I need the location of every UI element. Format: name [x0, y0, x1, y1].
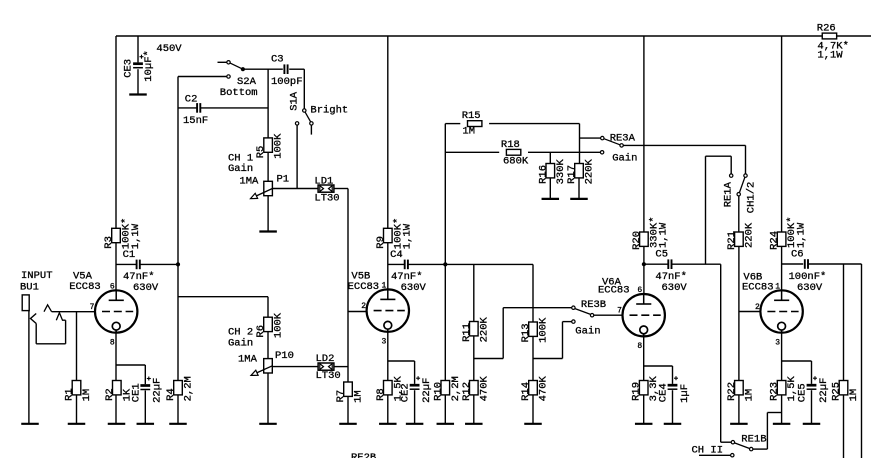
svg-text:LT30: LT30: [316, 370, 341, 382]
svg-text:ECC83: ECC83: [348, 281, 380, 293]
svg-text:C4: C4: [390, 249, 403, 261]
svg-text:100pF: 100pF: [271, 76, 303, 88]
svg-text:330K: 330K: [555, 158, 567, 184]
svg-text:22µF: 22µF: [152, 378, 164, 403]
svg-text:CE5: CE5: [797, 383, 809, 402]
svg-text:1M: 1M: [81, 389, 93, 402]
svg-text:R5: R5: [255, 146, 267, 159]
svg-text:CE3: CE3: [123, 59, 135, 78]
svg-text:630V: 630V: [133, 282, 159, 294]
svg-text:1M: 1M: [743, 389, 755, 402]
svg-text:LT30: LT30: [314, 192, 339, 204]
svg-text:CH1/2: CH1/2: [745, 182, 757, 214]
svg-text:R25: R25: [831, 382, 843, 401]
svg-text:CH II: CH II: [692, 444, 724, 456]
svg-text:8: 8: [110, 338, 115, 347]
svg-text:P1: P1: [277, 174, 290, 186]
svg-text:R20: R20: [631, 231, 643, 250]
svg-text:22µF: 22µF: [818, 378, 830, 403]
svg-text:7: 7: [617, 307, 622, 316]
svg-text:R24: R24: [769, 231, 781, 250]
svg-text:Gain: Gain: [612, 153, 637, 165]
svg-text:R8: R8: [375, 388, 387, 401]
svg-text:8: 8: [637, 342, 642, 351]
svg-text:R12: R12: [461, 382, 473, 401]
svg-text:LD2: LD2: [316, 353, 335, 365]
svg-text:ECC83: ECC83: [69, 281, 101, 293]
svg-text:2,2M: 2,2M: [183, 376, 195, 401]
svg-text:1: 1: [775, 283, 780, 292]
svg-text:630V: 630V: [662, 282, 688, 294]
svg-text:3: 3: [381, 337, 386, 346]
svg-text:7: 7: [90, 303, 95, 312]
svg-text:470K: 470K: [538, 375, 550, 401]
svg-text:R15: R15: [462, 110, 481, 122]
svg-text:630V: 630V: [797, 282, 823, 294]
svg-text:1M: 1M: [353, 390, 365, 403]
svg-text:1,1W: 1,1W: [130, 223, 142, 249]
svg-text:RE2B: RE2B: [351, 452, 376, 458]
svg-text:1,1W: 1,1W: [658, 222, 670, 248]
svg-text:100K: 100K: [273, 312, 285, 338]
svg-text:C6: C6: [791, 249, 804, 261]
svg-text:R26: R26: [817, 22, 836, 34]
svg-text:220K: 220K: [478, 316, 490, 342]
svg-text:RE3A: RE3A: [610, 132, 636, 144]
svg-text:6: 6: [110, 283, 115, 292]
svg-text:1MA: 1MA: [239, 176, 259, 188]
svg-text:S1A: S1A: [289, 91, 301, 111]
svg-text:R11: R11: [461, 323, 473, 342]
svg-text:R16: R16: [537, 165, 549, 184]
svg-text:R19: R19: [631, 382, 643, 401]
svg-text:22µF: 22µF: [421, 378, 433, 403]
svg-text:C1: C1: [123, 249, 136, 261]
svg-text:C3: C3: [271, 54, 284, 66]
svg-text:2: 2: [361, 302, 366, 311]
svg-text:1,1W: 1,1W: [817, 49, 843, 61]
svg-text:630V: 630V: [401, 282, 427, 294]
svg-text:C2: C2: [185, 94, 198, 106]
svg-text:INPUT: INPUT: [21, 270, 53, 282]
svg-text:3: 3: [775, 338, 780, 347]
svg-text:R22: R22: [726, 382, 738, 401]
svg-text:1: 1: [381, 282, 386, 291]
svg-text:R4: R4: [165, 388, 177, 401]
svg-text:1,1W: 1,1W: [795, 222, 807, 248]
svg-text:R2: R2: [104, 388, 116, 401]
svg-text:1µF: 1µF: [679, 384, 691, 403]
svg-text:Gain: Gain: [228, 337, 253, 349]
svg-text:100K: 100K: [538, 317, 550, 343]
svg-text:R23: R23: [769, 382, 781, 401]
svg-text:1M: 1M: [848, 389, 860, 402]
svg-text:1MA: 1MA: [238, 354, 258, 366]
svg-text:680K: 680K: [503, 156, 529, 168]
svg-text:470K: 470K: [478, 375, 490, 401]
svg-text:R1: R1: [64, 388, 76, 401]
svg-text:1,1W: 1,1W: [402, 223, 414, 249]
svg-text:R13: R13: [520, 323, 532, 342]
svg-text:LD1: LD1: [314, 176, 333, 188]
svg-text:Bright: Bright: [310, 105, 348, 117]
svg-text:P10: P10: [275, 350, 294, 362]
svg-text:BU1: BU1: [20, 281, 39, 293]
svg-text:R9: R9: [375, 236, 387, 249]
svg-text:450V: 450V: [156, 43, 182, 55]
svg-text:R21: R21: [726, 231, 738, 250]
svg-text:10µF*: 10µF*: [143, 50, 155, 82]
svg-text:RE1A: RE1A: [723, 181, 735, 207]
svg-text:R14: R14: [520, 382, 532, 401]
svg-text:2: 2: [755, 303, 760, 312]
svg-text:C5: C5: [655, 249, 668, 261]
svg-text:R6: R6: [255, 325, 267, 338]
svg-text:R18: R18: [501, 139, 520, 151]
svg-text:1M: 1M: [462, 126, 475, 138]
svg-text:CE4: CE4: [658, 383, 670, 402]
svg-text:CE2: CE2: [400, 383, 412, 402]
svg-text:Bottom: Bottom: [220, 87, 258, 99]
svg-text:R17: R17: [566, 165, 578, 184]
svg-text:Gain: Gain: [228, 163, 253, 175]
svg-text:R10: R10: [432, 382, 444, 401]
svg-text:RE3B: RE3B: [581, 299, 606, 311]
svg-text:ECC83: ECC83: [742, 282, 774, 294]
svg-text:R3: R3: [103, 236, 115, 249]
svg-text:220K: 220K: [584, 158, 596, 184]
svg-text:15nF: 15nF: [183, 115, 208, 127]
svg-text:220K: 220K: [743, 222, 755, 248]
svg-text:RE1B: RE1B: [741, 434, 766, 446]
svg-text:CE1: CE1: [130, 383, 142, 402]
svg-text:R7: R7: [335, 390, 347, 403]
svg-text:Gain: Gain: [575, 326, 600, 338]
svg-text:6: 6: [637, 286, 642, 295]
svg-text:100K: 100K: [273, 133, 285, 159]
svg-text:ECC83: ECC83: [598, 285, 630, 297]
